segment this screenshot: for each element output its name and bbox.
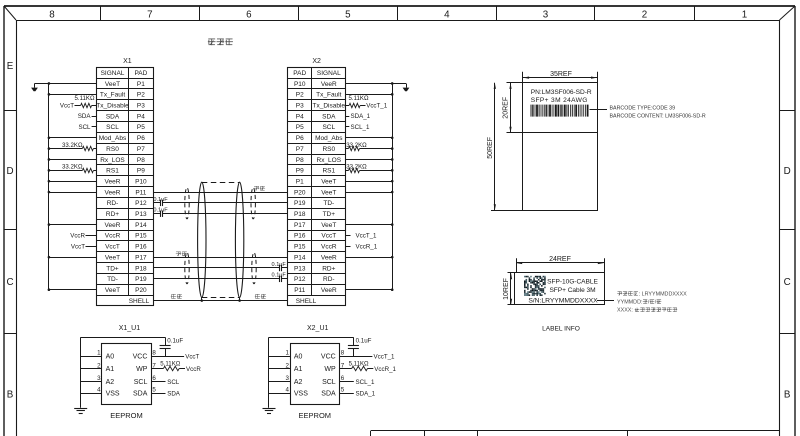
svg-text:SFP-10G-CABLE: SFP-10G-CABLE: [547, 279, 598, 286]
svg-text:BARCODE CONTENT: LM3SF006-SD-R: BARCODE CONTENT: LM3SF006-SD-R: [610, 113, 706, 119]
svg-text:TD-: TD-: [107, 276, 118, 283]
svg-text:RD+: RD+: [322, 265, 335, 272]
svg-text:SCL: SCL: [322, 124, 335, 131]
svg-text:4: 4: [444, 9, 450, 20]
svg-text:SCL: SCL: [78, 124, 91, 131]
svg-text:P11: P11: [294, 287, 305, 294]
svg-text:VeeR: VeeR: [321, 287, 337, 294]
svg-text:X2: X2: [312, 58, 321, 65]
svg-text:VccR: VccR: [105, 233, 121, 240]
svg-text:VeeT: VeeT: [105, 254, 120, 261]
svg-text:3: 3: [285, 375, 289, 382]
svg-text:P16: P16: [135, 244, 147, 251]
svg-text:VccR: VccR: [321, 244, 337, 251]
svg-text:5.11KΩ: 5.11KΩ: [160, 360, 180, 367]
svg-text:VccT: VccT: [321, 233, 336, 240]
svg-text:Tx_Fault: Tx_Fault: [100, 92, 125, 99]
svg-text:3: 3: [543, 9, 549, 20]
svg-text:P19: P19: [294, 200, 306, 207]
svg-text:Rx_LOS: Rx_LOS: [100, 157, 125, 164]
svg-text:SDA: SDA: [322, 113, 336, 120]
svg-text:P3: P3: [296, 102, 304, 109]
svg-text:WP: WP: [324, 366, 336, 373]
svg-text:P19: P19: [135, 276, 147, 283]
svg-text:2: 2: [97, 362, 101, 369]
svg-text:RD+: RD+: [106, 211, 119, 218]
svg-text:SHELL: SHELL: [129, 298, 150, 305]
svg-text:0.1uF: 0.1uF: [272, 262, 287, 268]
svg-text:VccT_1: VccT_1: [374, 354, 396, 361]
svg-text:X1: X1: [123, 58, 132, 65]
svg-text:VccT: VccT: [60, 102, 74, 109]
svg-text:P7: P7: [137, 146, 145, 153]
svg-text:P12: P12: [294, 276, 306, 283]
svg-text:X1_U1: X1_U1: [119, 325, 141, 332]
svg-text:P2: P2: [296, 92, 304, 99]
svg-text:BARCODE TYPE:CODE 39: BARCODE TYPE:CODE 39: [610, 106, 676, 112]
svg-text:1: 1: [97, 350, 101, 357]
svg-text:P11: P11: [135, 189, 146, 196]
svg-text:2: 2: [285, 362, 289, 369]
svg-text:24REF: 24REF: [549, 256, 571, 263]
svg-text:/: /: [648, 299, 650, 305]
svg-text:TD+: TD+: [323, 211, 336, 218]
svg-text:VCC: VCC: [133, 354, 148, 361]
svg-text:VccT: VccT: [105, 244, 120, 251]
svg-text:P20: P20: [294, 189, 306, 196]
svg-text:P10: P10: [294, 81, 306, 88]
svg-text:VeeR: VeeR: [105, 222, 121, 229]
svg-text:33.2KΩ: 33.2KΩ: [346, 164, 367, 171]
svg-text:SDA: SDA: [133, 391, 148, 398]
svg-text:SIGNAL: SIGNAL: [317, 70, 341, 77]
svg-text:SFP+ 3M 24AWG: SFP+ 3M 24AWG: [531, 97, 588, 104]
svg-text:P4: P4: [137, 113, 145, 120]
svg-text:SDA: SDA: [106, 113, 120, 120]
svg-text:VSS: VSS: [106, 391, 120, 398]
svg-text:5.11KΩ: 5.11KΩ: [348, 95, 368, 102]
svg-text:A1: A1: [294, 366, 303, 373]
svg-text:A0: A0: [294, 354, 303, 361]
svg-text:VeeT: VeeT: [321, 189, 336, 196]
svg-text:6: 6: [246, 9, 252, 20]
svg-text:RS1: RS1: [322, 168, 335, 175]
svg-text:P15: P15: [135, 233, 147, 240]
svg-text:10REF: 10REF: [503, 278, 510, 300]
svg-text:0.1uF: 0.1uF: [272, 273, 287, 279]
svg-text:A2: A2: [294, 379, 303, 386]
svg-text:C: C: [6, 277, 13, 288]
svg-text:P17: P17: [135, 254, 147, 261]
svg-text:33.2KΩ: 33.2KΩ: [62, 164, 83, 171]
svg-text:P18: P18: [135, 265, 147, 272]
svg-text:SCL: SCL: [134, 379, 148, 386]
svg-text:P12: P12: [135, 200, 147, 207]
svg-text:PAD: PAD: [134, 70, 147, 77]
svg-text:35REF: 35REF: [550, 71, 572, 78]
svg-text:A2: A2: [106, 379, 115, 386]
svg-text:D: D: [6, 166, 13, 177]
svg-text:C: C: [784, 277, 791, 288]
svg-text:SDA: SDA: [321, 391, 336, 398]
svg-text:P20: P20: [135, 287, 147, 294]
svg-text:VeeT: VeeT: [105, 287, 120, 294]
svg-text:Tx_Disable: Tx_Disable: [313, 102, 346, 109]
svg-text:A1: A1: [106, 366, 115, 373]
svg-text:P14: P14: [294, 254, 306, 261]
svg-text:S/N:LRYYMMDDXXXX: S/N:LRYYMMDDXXXX: [528, 298, 598, 305]
svg-text:SCL: SCL: [167, 379, 180, 386]
svg-text:VccT_1: VccT_1: [366, 102, 388, 109]
svg-text:SCL_1: SCL_1: [351, 124, 370, 131]
svg-text:VSS: VSS: [294, 391, 308, 398]
svg-text:P1: P1: [137, 81, 145, 88]
svg-text:P15: P15: [294, 244, 306, 251]
svg-text:SIGNAL: SIGNAL: [101, 70, 125, 77]
svg-text:P17: P17: [294, 222, 306, 229]
svg-text:8: 8: [152, 350, 156, 357]
svg-text:P16: P16: [294, 233, 306, 240]
svg-text:P13: P13: [294, 265, 306, 272]
svg-text:0.1uF: 0.1uF: [153, 197, 168, 203]
svg-text:4: 4: [285, 387, 289, 394]
svg-text:: LRYYMMDDXXXX: : LRYYMMDDXXXX: [639, 291, 688, 297]
svg-text:SDA: SDA: [167, 391, 181, 398]
svg-text:8: 8: [341, 350, 345, 357]
svg-text:TD-: TD-: [323, 200, 334, 207]
svg-text:EEPROM: EEPROM: [299, 411, 332, 420]
svg-text:PN:LM3SF006-SD-R: PN:LM3SF006-SD-R: [531, 89, 592, 96]
svg-text:5: 5: [345, 9, 351, 20]
svg-text:P9: P9: [296, 168, 304, 175]
svg-text:Mod_Abs: Mod_Abs: [315, 135, 343, 142]
svg-text:VeeR: VeeR: [321, 81, 337, 88]
svg-text:VeeT: VeeT: [321, 222, 336, 229]
svg-text:3: 3: [97, 375, 101, 382]
svg-text:0.1uF: 0.1uF: [356, 338, 372, 345]
svg-text:WP: WP: [136, 366, 148, 373]
svg-text:SDA_1: SDA_1: [351, 113, 371, 120]
svg-text:SCL: SCL: [322, 379, 336, 386]
svg-text:5.11KΩ: 5.11KΩ: [74, 95, 94, 102]
svg-text:1: 1: [742, 9, 747, 20]
svg-text:P14: P14: [135, 222, 147, 229]
svg-text:Tx_Fault: Tx_Fault: [316, 92, 341, 99]
svg-text:VccR: VccR: [186, 366, 201, 373]
svg-text:VCC: VCC: [321, 354, 336, 361]
svg-text:P7: P7: [296, 146, 304, 153]
svg-text:6: 6: [341, 375, 345, 382]
svg-text:VeeR: VeeR: [105, 189, 121, 196]
svg-text:8: 8: [49, 9, 55, 20]
svg-text:VccR_1: VccR_1: [356, 243, 378, 250]
svg-text:50REF: 50REF: [487, 137, 494, 159]
svg-text:RS0: RS0: [106, 146, 119, 153]
svg-text:1: 1: [285, 350, 289, 357]
svg-text:P8: P8: [137, 157, 145, 164]
svg-text:0.1uF: 0.1uF: [153, 208, 168, 214]
svg-text:33.2KΩ: 33.2KΩ: [346, 142, 367, 149]
svg-text:P10: P10: [135, 178, 147, 185]
svg-text:6: 6: [152, 375, 156, 382]
svg-text:X2_U1: X2_U1: [307, 325, 329, 332]
svg-text:LABEL INFO: LABEL INFO: [542, 326, 580, 333]
svg-text:P4: P4: [296, 113, 304, 120]
svg-text:P18: P18: [294, 211, 306, 218]
svg-text:Tx_Disable: Tx_Disable: [96, 102, 129, 109]
svg-text:RD-: RD-: [323, 276, 335, 283]
svg-text:SHELL: SHELL: [296, 298, 317, 305]
svg-text:VccT: VccT: [185, 354, 199, 361]
svg-text:SDA_1: SDA_1: [356, 391, 376, 398]
svg-text:YYMMDD:: YYMMDD:: [617, 299, 642, 305]
svg-text:SDA: SDA: [78, 113, 92, 120]
svg-text:TD+: TD+: [106, 265, 119, 272]
svg-text:B: B: [7, 390, 14, 401]
svg-text:4: 4: [97, 387, 101, 394]
svg-text:VeeR: VeeR: [321, 254, 337, 261]
svg-text:P6: P6: [137, 135, 145, 142]
svg-text:E: E: [7, 61, 14, 72]
svg-text:0.1uF: 0.1uF: [167, 338, 183, 345]
svg-text:P5: P5: [296, 124, 304, 131]
svg-text:VccR_1: VccR_1: [374, 366, 396, 373]
svg-text:5: 5: [341, 387, 345, 394]
svg-text:PAD: PAD: [293, 70, 306, 77]
svg-text:B: B: [784, 390, 791, 401]
svg-text:2: 2: [642, 9, 647, 20]
svg-text:VeeT: VeeT: [105, 81, 120, 88]
svg-text:A0: A0: [106, 354, 115, 361]
svg-text:P5: P5: [137, 124, 145, 131]
svg-text:5: 5: [152, 387, 156, 394]
svg-text:EEPROM: EEPROM: [110, 411, 143, 420]
svg-text:VeeT: VeeT: [321, 178, 336, 185]
svg-text:RD-: RD-: [107, 200, 119, 207]
svg-text:P6: P6: [296, 135, 304, 142]
svg-text:/: /: [655, 299, 657, 305]
svg-text:RS0: RS0: [322, 146, 335, 153]
svg-text:P3: P3: [137, 102, 145, 109]
svg-text:P2: P2: [137, 92, 145, 99]
svg-text:VccT_1: VccT_1: [356, 233, 378, 240]
svg-text:20REF: 20REF: [503, 97, 510, 119]
svg-text:SCL_1: SCL_1: [356, 379, 375, 386]
svg-text:VeeR: VeeR: [105, 178, 121, 185]
svg-text:Mod_Abs: Mod_Abs: [99, 135, 127, 142]
svg-text:P8: P8: [296, 157, 304, 164]
svg-text:VccR: VccR: [70, 233, 85, 240]
svg-text:SFP+ Cable 3M: SFP+ Cable 3M: [549, 287, 595, 294]
svg-text:SCL: SCL: [106, 124, 119, 131]
svg-text:7: 7: [147, 9, 152, 20]
svg-text:P1: P1: [296, 178, 304, 185]
svg-text:33.2KΩ: 33.2KΩ: [62, 142, 83, 149]
svg-text:VccT: VccT: [71, 243, 85, 250]
svg-text:P13: P13: [135, 211, 147, 218]
svg-text:RS1: RS1: [106, 168, 119, 175]
svg-text:5.11KΩ: 5.11KΩ: [349, 360, 369, 367]
svg-text:Rx_LOS: Rx_LOS: [317, 157, 342, 164]
svg-text:XXXX:: XXXX:: [617, 308, 633, 314]
svg-text:P9: P9: [137, 168, 145, 175]
svg-text:D: D: [784, 166, 791, 177]
